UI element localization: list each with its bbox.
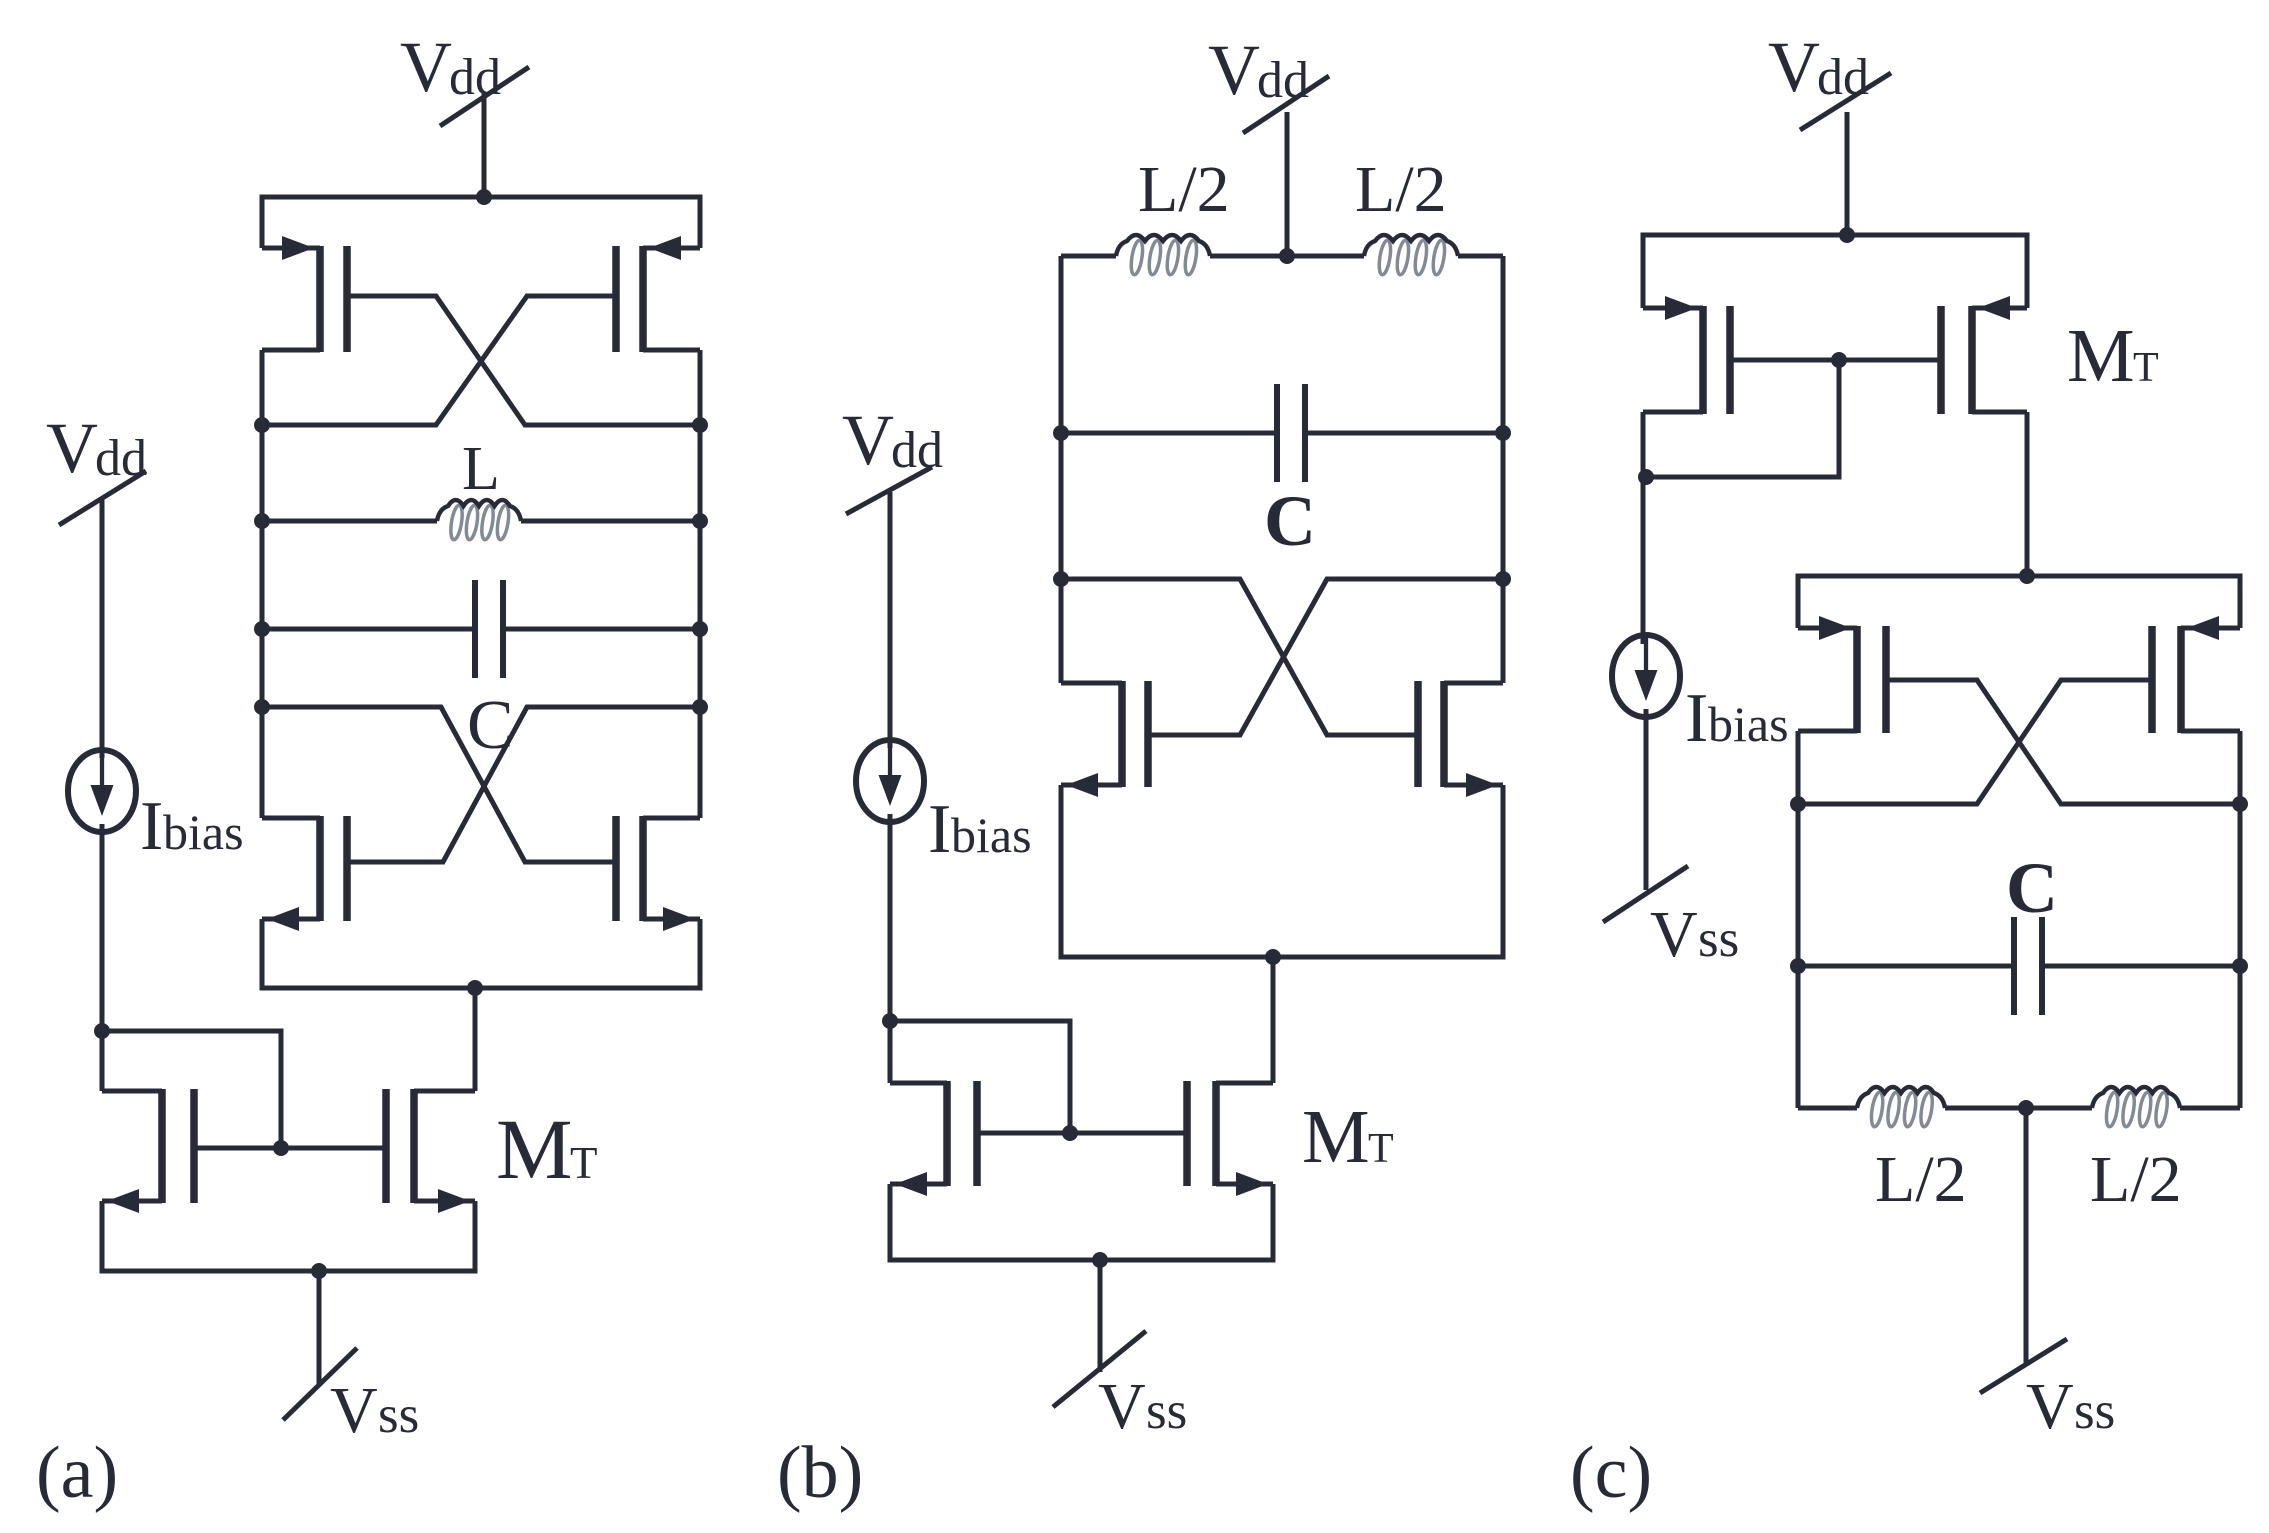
- svg-text:ss: ss: [378, 1386, 419, 1444]
- wire mirror bottom rail (a): [102, 1201, 475, 1271]
- junction C left (b): [1053, 425, 1069, 441]
- junction C right (b): [1495, 425, 1511, 441]
- wire left rail to Ibias (c): [1641, 412, 1646, 644]
- svg-text:T: T: [2133, 345, 2159, 391]
- svg-text:V: V: [400, 27, 452, 107]
- transistor M3 diode NMOS (b): [890, 1182, 947, 1187]
- junction node A dot (a): [254, 417, 270, 433]
- wire node A lower net: left line + M4 gate (a): [262, 707, 616, 862]
- wire node A net: M2 gate + left drain line (a): [262, 296, 616, 425]
- wire mirror gate line (b): [977, 1131, 1187, 1136]
- wire Vss stub (b): [1098, 1260, 1103, 1372]
- wire right rail (b): [1501, 256, 1506, 683]
- svg-text:dd: dd: [449, 49, 501, 106]
- transistor M2 PMOS right (a): [643, 246, 700, 251]
- current source Ibias (c): [1612, 635, 1680, 717]
- junction diode drain tap (c): [1638, 469, 1654, 485]
- junction C right (a): [692, 621, 708, 637]
- inductor L/2 right (b): [1377, 239, 1392, 275]
- wire node B lower net: right line + M3 gate (a): [348, 707, 700, 862]
- wire Vss stub (a): [317, 1271, 322, 1385]
- svg-text:T: T: [570, 1138, 598, 1188]
- junction node A lower dot (a): [254, 699, 270, 715]
- power symbol Vdd left (a): [59, 471, 146, 525]
- wire node B net: M1 gate + right drain line (a): [347, 296, 700, 425]
- svg-text:I: I: [1685, 680, 1708, 757]
- junction node B dot (b): [1495, 571, 1511, 587]
- wire Vdd stub (b): [1285, 112, 1290, 256]
- junction gate tap (c): [1831, 352, 1847, 368]
- wire gate to drain (c): [1646, 360, 1839, 477]
- transistor MT PMOS (c): [1972, 306, 2027, 311]
- junction node B lower dot (a): [692, 699, 708, 715]
- junction Vss node (b): [1092, 1252, 1108, 1268]
- power symbol Vss (a): [283, 1348, 357, 1420]
- svg-text:T: T: [1368, 1126, 1394, 1172]
- svg-text:I: I: [928, 791, 951, 868]
- wire top rail (a): [262, 197, 700, 248]
- svg-text:bias: bias: [951, 807, 1032, 863]
- junction Vdd-rail (b): [1279, 248, 1295, 264]
- power symbol Vdd top (b): [1243, 76, 1329, 133]
- svg-text:C: C: [1264, 481, 1316, 561]
- svg-text:V: V: [46, 408, 98, 488]
- wire tail drain (a): [473, 988, 478, 1091]
- transistor M3 PMOS right (c): [2181, 626, 2240, 631]
- junction Vss node (a): [311, 1263, 327, 1279]
- junction C right (c): [2232, 958, 2248, 974]
- power symbol Vdd left (b): [846, 467, 932, 514]
- wire left rail (c): [1796, 731, 1801, 1108]
- wire node A net: left line + right gate (b): [1061, 579, 1418, 735]
- transistor M4 NMOS right (a): [643, 917, 700, 922]
- power symbol Vss bottom (c): [1980, 1339, 2067, 1393]
- wire tail drain (b): [1271, 957, 1276, 1083]
- junction node B dot (c): [2232, 796, 2248, 812]
- capacitor C (c): [1798, 964, 2011, 969]
- svg-text:dd: dd: [95, 430, 147, 487]
- power symbol Vss left (c): [1603, 866, 1688, 922]
- svg-text:V: V: [1650, 898, 1698, 971]
- svg-text:L/2: L/2: [1875, 1143, 1967, 1216]
- wire node B net: left gate + right line (c): [1886, 680, 2240, 804]
- power symbol Vss (b): [1053, 1331, 1146, 1407]
- wire top rail mid (b): [1210, 254, 1364, 259]
- svg-text:ss: ss: [1698, 910, 1739, 968]
- current source Ibias (a): [68, 750, 136, 832]
- power symbol Vdd top (a): [440, 67, 529, 126]
- transistor M1 PMOS left (a): [262, 246, 320, 251]
- wire MT drain tail (c): [2025, 412, 2030, 576]
- wire Vss stub (c): [2024, 1108, 2029, 1364]
- transistor M3 NMOS left (a): [262, 917, 320, 922]
- capacitor C (b): [1061, 431, 1274, 436]
- svg-text:bias: bias: [1708, 696, 1789, 752]
- junction bias gate tap (b): [882, 1013, 898, 1029]
- inductor L/2 right (c): [2104, 1091, 2119, 1127]
- wire Ibias to Vss (c): [1644, 709, 1649, 890]
- junction C left (c): [1790, 958, 1806, 974]
- wire Vdd stub (a): [482, 93, 487, 197]
- wire mirror top rail (c): [1643, 235, 2027, 308]
- transistor MT NMOS (b): [1216, 1182, 1273, 1187]
- svg-text:dd: dd: [891, 422, 943, 479]
- junction L right (a): [692, 513, 708, 529]
- svg-text:M: M: [2067, 314, 2135, 398]
- inductor L (a): [262, 519, 437, 524]
- inductor L/2 left (b): [1061, 254, 1116, 259]
- junction tail node (a): [467, 980, 483, 996]
- wire bottom rail mid (c): [1945, 1106, 2092, 1111]
- svg-text:L/2: L/2: [1355, 153, 1447, 226]
- svg-text:V: V: [1768, 27, 1820, 107]
- wire core bottom rail (a): [262, 919, 700, 988]
- svg-text:ss: ss: [2074, 1382, 2115, 1440]
- junction Vss node (c): [2018, 1100, 2034, 1116]
- svg-text:(c): (c): [1570, 1432, 1652, 1514]
- svg-text:V: V: [330, 1374, 378, 1447]
- junction node A dot (b): [1053, 571, 1069, 587]
- transistor M5 diode NMOS (a): [102, 1199, 162, 1204]
- wire Vdd stub (c): [1845, 112, 1850, 235]
- svg-text:dd: dd: [1257, 52, 1309, 109]
- junction gate line tap (b): [1062, 1125, 1078, 1141]
- wire right rail (a): [698, 350, 703, 818]
- svg-text:L/2: L/2: [1138, 153, 1230, 226]
- svg-text:V: V: [1098, 1370, 1146, 1443]
- svg-text:bias: bias: [163, 804, 244, 860]
- svg-text:M: M: [1302, 1095, 1370, 1179]
- junction Vdd-rail (a): [476, 189, 492, 205]
- junction L left (a): [254, 513, 270, 529]
- svg-text:V: V: [842, 400, 894, 480]
- junction gate line tap (a): [273, 1140, 289, 1156]
- junction Vdd-rail (c): [1839, 227, 1855, 243]
- wire Vdd to Ibias (b): [888, 492, 893, 748]
- wire mirror gate line (a): [194, 1146, 386, 1151]
- svg-text:M: M: [496, 1101, 572, 1197]
- junction C left (a): [254, 621, 270, 637]
- current source Ibias (b): [856, 740, 924, 822]
- wire bias to gate line (a): [102, 1031, 281, 1148]
- wire bias to gate line (b): [890, 1021, 1070, 1133]
- svg-text:L/2: L/2: [2090, 1143, 2182, 1216]
- wire right rail (c): [2238, 731, 2243, 1108]
- wire node A net: right gate + left line (c): [1798, 680, 2152, 804]
- wire Vdd to Ibias (a): [100, 500, 105, 758]
- wire Ibias to mirror (b): [888, 814, 893, 1083]
- svg-text:I: I: [140, 788, 163, 865]
- wire left rail (a): [260, 350, 265, 818]
- svg-text:V: V: [1208, 30, 1260, 110]
- wire mirror bottom rail (b): [890, 1184, 1273, 1260]
- svg-text:(a): (a): [36, 1432, 118, 1514]
- transistor M2 NMOS right (b): [1444, 783, 1503, 788]
- transistor MT NMOS (a): [414, 1199, 475, 1204]
- wire left rail (b): [1059, 256, 1064, 683]
- junction tail node (b): [1265, 949, 1281, 965]
- wire node B net: right line + left gate (b): [1148, 579, 1503, 735]
- svg-text:ss: ss: [1146, 1382, 1187, 1440]
- transistor M1 NMOS left (b): [1061, 783, 1122, 788]
- svg-text:(b): (b): [777, 1432, 863, 1514]
- wire Ibias to mirror (a): [100, 824, 105, 1091]
- junction bias gate tap (a): [94, 1023, 110, 1039]
- svg-text:C: C: [467, 687, 514, 764]
- junction core top (c): [2019, 568, 2035, 584]
- svg-text:L: L: [462, 435, 500, 503]
- wire mirror gate line (c): [1730, 358, 1941, 363]
- transistor M1 diode PMOS (c): [1643, 306, 1703, 311]
- transistor M2 PMOS left (c): [1798, 626, 1857, 631]
- svg-text:dd: dd: [1817, 49, 1869, 106]
- svg-text:V: V: [2026, 1370, 2074, 1443]
- power symbol Vdd top (c): [1800, 73, 1891, 130]
- junction node B dot (a): [692, 417, 708, 433]
- inductor L/2 left (c): [1798, 1106, 1857, 1111]
- wire core bottom rail (b): [1061, 785, 1503, 957]
- svg-text:C: C: [2006, 848, 2058, 928]
- junction node A dot (c): [1790, 796, 1806, 812]
- capacitor C (a): [262, 627, 472, 632]
- wire core top rail (c): [1798, 576, 2240, 628]
